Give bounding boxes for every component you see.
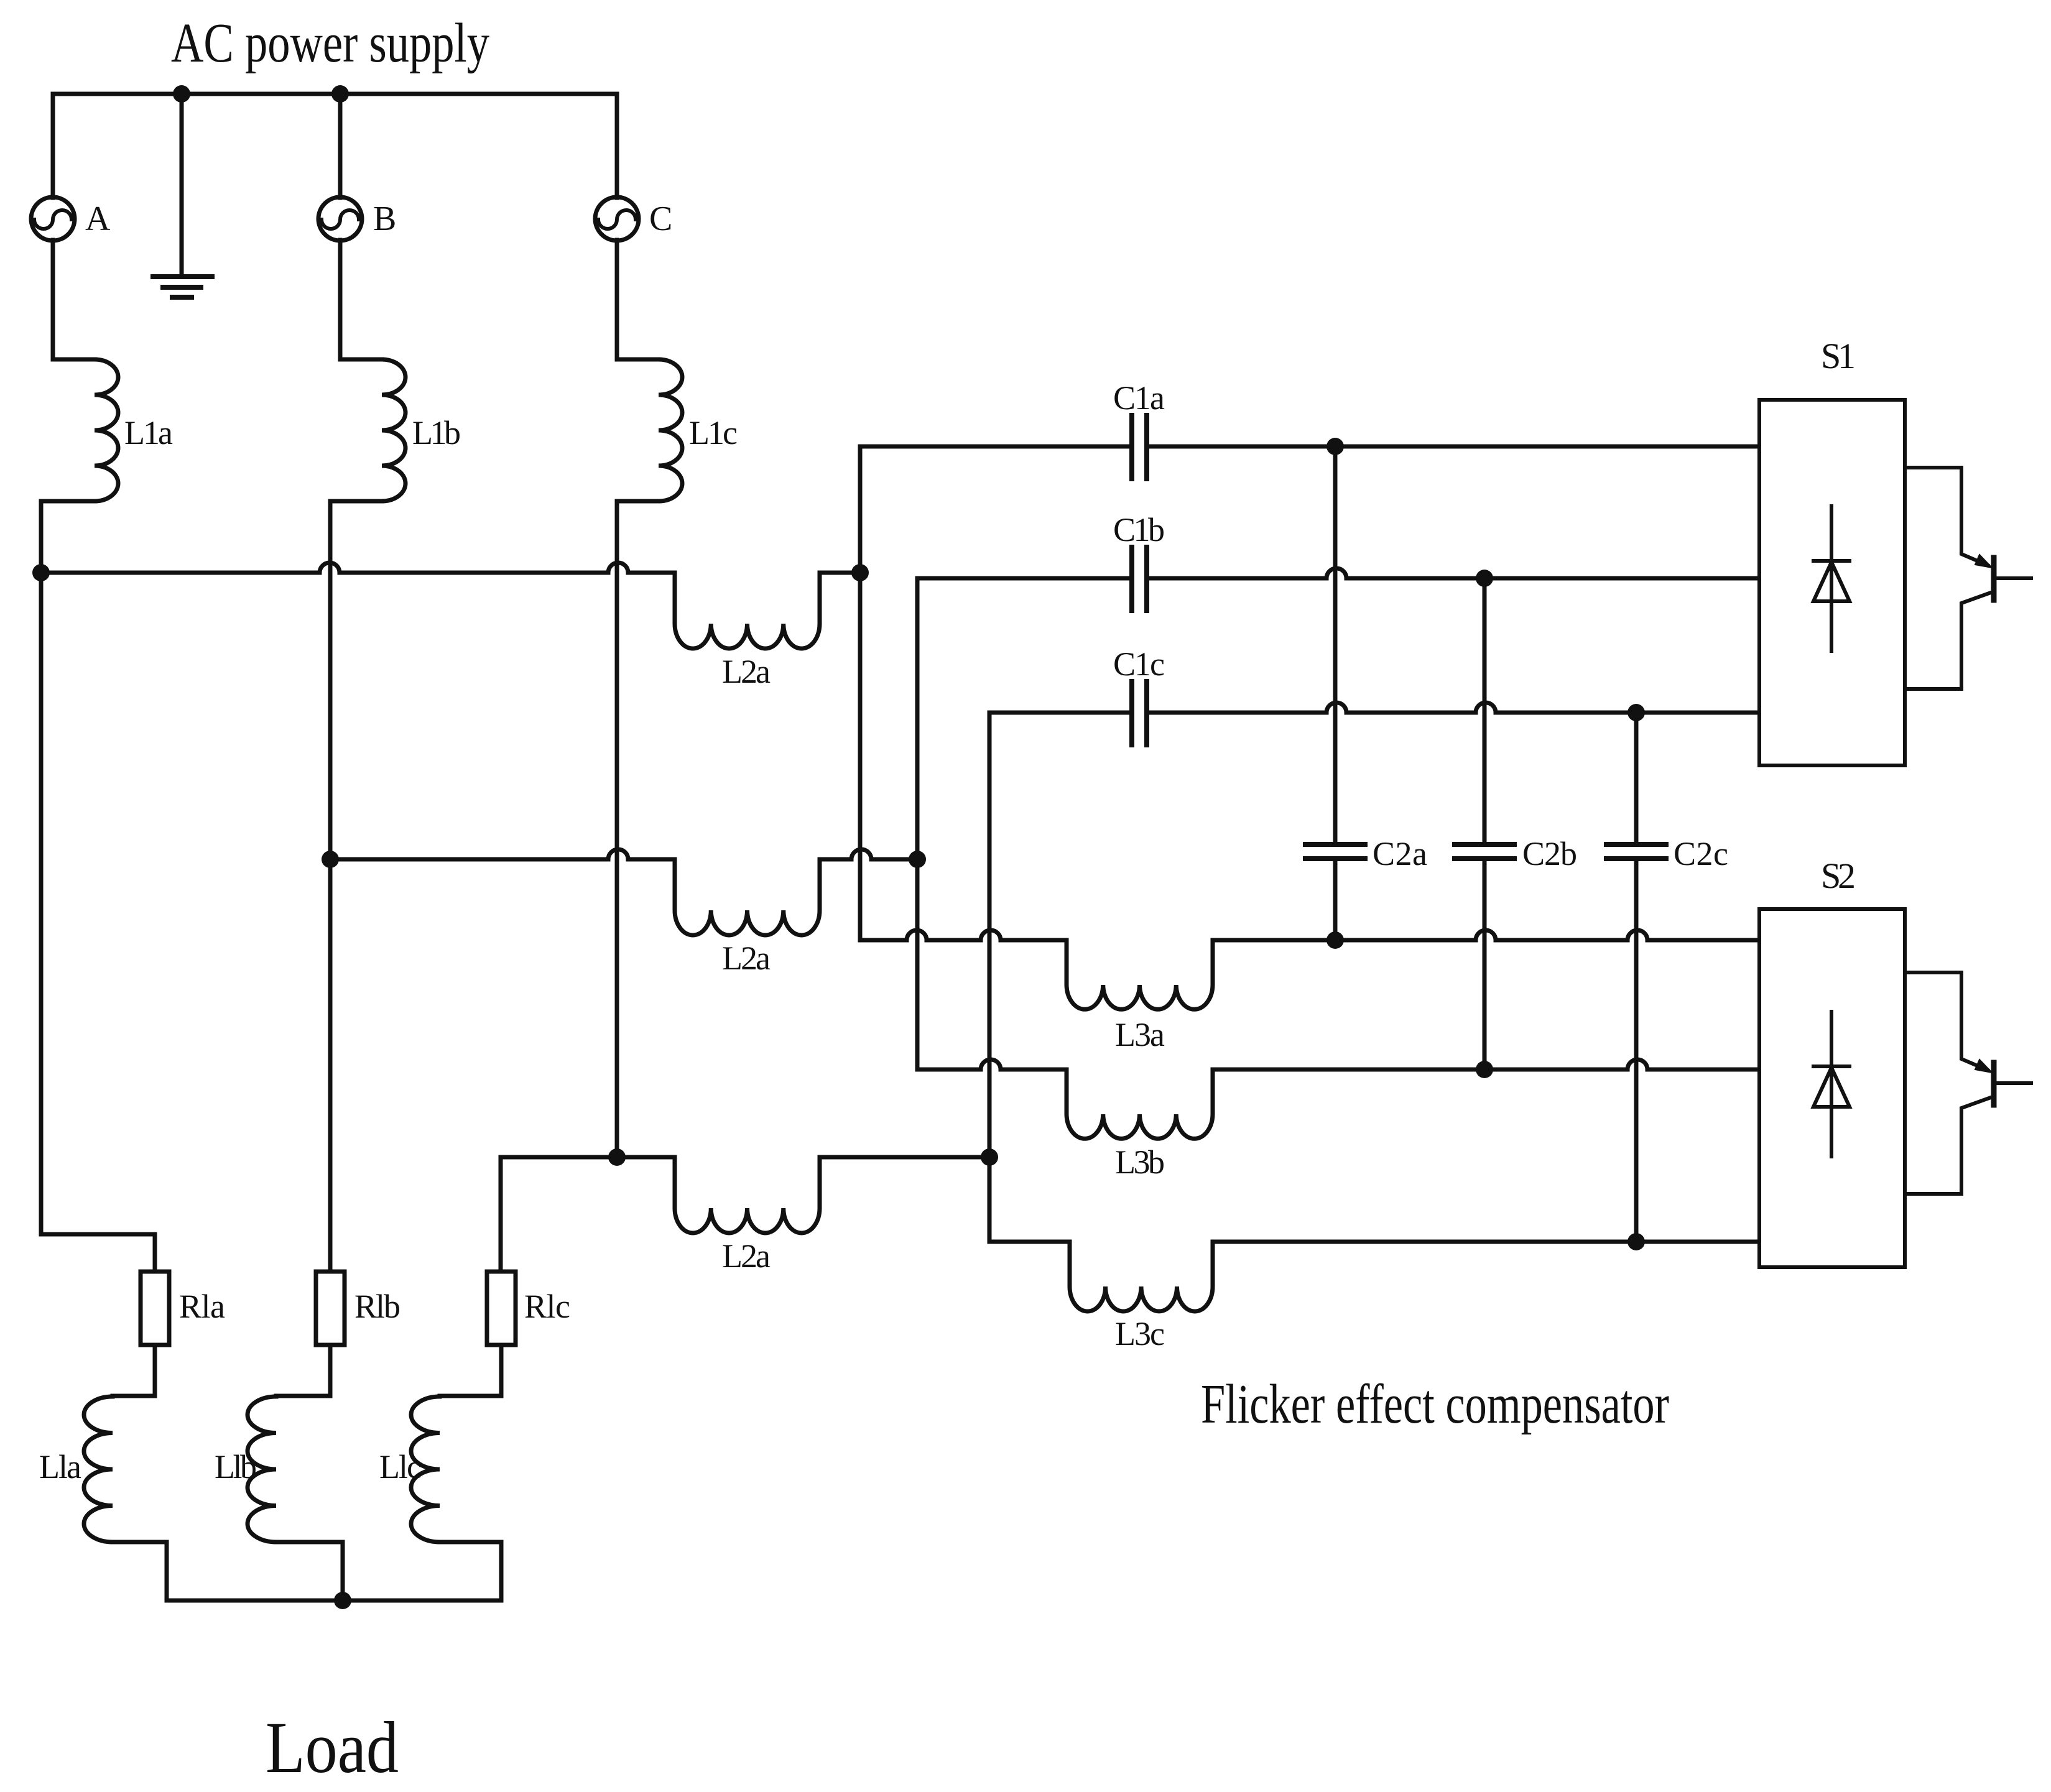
svg-text:B: B xyxy=(373,200,396,238)
inductor L2a row3 xyxy=(675,1157,820,1233)
ground xyxy=(153,277,212,297)
wire L2a row2 to node xyxy=(820,849,917,859)
wire row2 bus xyxy=(330,849,675,859)
inductor L2a row2 xyxy=(675,859,820,935)
wire row1 left down to Rla xyxy=(41,1234,155,1272)
inductor L2a row1 xyxy=(675,573,820,649)
svg-text:C1b: C1b xyxy=(1113,511,1165,548)
node dot 3 xyxy=(32,564,50,581)
wire node b down to L3b line xyxy=(917,859,1067,1069)
svg-text:Rlc: Rlc xyxy=(524,1288,570,1325)
wire Rla to Lla xyxy=(113,1345,155,1396)
node dot 1 xyxy=(173,85,190,103)
capacitor C2a xyxy=(1305,844,1365,859)
wire L1b exit xyxy=(330,501,382,1272)
svg-text:Flicker effect compensator: Flicker effect compensator xyxy=(1201,1374,1669,1435)
node dot 11 xyxy=(1627,704,1645,721)
node dot 8 xyxy=(981,1148,998,1166)
wire L2a row3 to node xyxy=(820,1155,989,1160)
inductor L3a xyxy=(1067,940,1213,1009)
wire node b up to C1b line xyxy=(917,578,1129,859)
svg-text:Lla: Lla xyxy=(39,1448,81,1485)
inductor L1c xyxy=(659,359,682,501)
svg-text:Load: Load xyxy=(266,1707,399,1788)
node dot 13 xyxy=(1476,1061,1493,1078)
svg-text:L1b: L1b xyxy=(412,414,461,451)
wire Llb exit xyxy=(276,1542,343,1600)
svg-text:L2a: L2a xyxy=(722,1237,771,1275)
wire row3 bus xyxy=(501,1155,675,1160)
wire row1 bus xyxy=(41,563,675,573)
capacitor C1c xyxy=(1132,681,1147,745)
switch block S2 xyxy=(1759,909,1905,1267)
svg-text:Rla: Rla xyxy=(179,1288,225,1325)
wire C2a lower xyxy=(1333,861,1338,940)
wire Llc exit xyxy=(440,1542,501,1600)
IGBT of S2 xyxy=(1905,972,1988,1070)
diode in S1 xyxy=(1830,506,1833,651)
wire Rlb to Llb xyxy=(276,1345,330,1396)
wire phase A drop xyxy=(51,94,55,198)
svg-text:Rlb: Rlb xyxy=(354,1288,400,1325)
node dot 4 xyxy=(851,564,869,581)
node dot 5 xyxy=(322,851,339,868)
svg-text:Llb: Llb xyxy=(215,1448,257,1485)
wire C2b lower xyxy=(1483,861,1487,1069)
svg-text:L2a: L2a xyxy=(722,653,771,690)
wire C1b to S1 xyxy=(1149,568,1759,578)
svg-text:L1a: L1a xyxy=(124,414,173,451)
wire Rlc to Llc xyxy=(440,1345,501,1396)
wire Lla exit xyxy=(113,1542,167,1600)
inductor L3b xyxy=(1067,1069,1213,1138)
wire load bottom bus xyxy=(167,1599,501,1603)
wire C1a to S1 xyxy=(1149,445,1759,449)
svg-text:L1c: L1c xyxy=(689,414,738,451)
svg-text:C2b: C2b xyxy=(1522,835,1577,872)
node dot 12 xyxy=(1326,931,1344,949)
wire row3 left down to Rlc xyxy=(499,1157,503,1272)
node dot 14 xyxy=(1627,1233,1645,1250)
wire C1c to S1 xyxy=(1149,703,1759,713)
wire node c down to L3c line xyxy=(989,1157,1070,1242)
diode in S2 xyxy=(1830,1012,1833,1157)
wire source B to L1b xyxy=(340,240,382,359)
svg-text:AC power supply: AC power supply xyxy=(171,12,489,74)
svg-text:A: A xyxy=(85,200,111,238)
resistor Rlc xyxy=(487,1272,516,1345)
AC source A xyxy=(31,197,75,241)
svg-text:Llc: Llc xyxy=(379,1448,422,1485)
node dot 7 xyxy=(608,1148,626,1166)
svg-text:S1: S1 xyxy=(1821,336,1856,376)
svg-text:L3c: L3c xyxy=(1115,1315,1165,1352)
wire source C to L1c xyxy=(617,240,659,359)
inductor L3c xyxy=(1070,1242,1213,1311)
wire L1c exit xyxy=(617,501,659,1157)
svg-text:C1a: C1a xyxy=(1113,379,1165,417)
svg-text:L3b: L3b xyxy=(1115,1143,1165,1181)
svg-text:C1c: C1c xyxy=(1113,645,1165,683)
IGBT of S1 xyxy=(1905,468,1988,565)
node dot 10 xyxy=(1476,570,1493,587)
wire L3b to S2 xyxy=(1213,1060,1759,1069)
wire C2a upper xyxy=(1333,446,1338,842)
wire C2c upper xyxy=(1634,713,1639,842)
node dot 9 xyxy=(1326,438,1344,455)
inductor L1a xyxy=(95,359,118,501)
wire L3c to S2 xyxy=(1213,1240,1759,1244)
AC source C xyxy=(595,197,639,241)
wire C2c lower xyxy=(1634,861,1639,1242)
resistor Rlb xyxy=(316,1272,345,1345)
inductor Lla xyxy=(84,1397,113,1542)
capacitor C1b xyxy=(1132,547,1147,611)
wire L3a to S2 xyxy=(1213,930,1759,940)
wire node c up to C1c line xyxy=(989,713,1129,1157)
wire phase C drop xyxy=(615,94,619,198)
inductor Llb xyxy=(248,1397,276,1542)
wire ground drop xyxy=(180,94,184,277)
wire top bus xyxy=(53,92,617,96)
wire phase B drop xyxy=(338,94,343,198)
node dot 2 xyxy=(331,85,349,103)
wire node a down to L3a line xyxy=(860,573,1067,940)
svg-text:L3a: L3a xyxy=(1115,1016,1165,1053)
wire L2a row1 to node xyxy=(820,571,860,575)
svg-text:C2c: C2c xyxy=(1674,835,1728,872)
svg-text:L2a: L2a xyxy=(722,940,771,977)
node dot 6 xyxy=(909,851,926,868)
wire L1a exit xyxy=(41,501,95,1234)
svg-text:C2a: C2a xyxy=(1373,835,1427,872)
AC source B xyxy=(318,197,362,241)
capacitor C2c xyxy=(1606,844,1666,859)
inductor L1b xyxy=(382,359,405,501)
capacitor C1a xyxy=(1132,415,1147,479)
switch block S1 xyxy=(1759,400,1905,765)
node dot 15 xyxy=(334,1592,351,1609)
wire C2b upper xyxy=(1483,578,1487,842)
svg-text:S2: S2 xyxy=(1821,856,1856,896)
capacitor C2b xyxy=(1455,844,1514,859)
svg-text:C: C xyxy=(649,200,672,238)
resistor Rla xyxy=(141,1272,169,1345)
wire source A to L1a xyxy=(53,240,95,359)
inductor Llc xyxy=(411,1397,440,1542)
wire node a up to C1a line xyxy=(860,446,1129,573)
